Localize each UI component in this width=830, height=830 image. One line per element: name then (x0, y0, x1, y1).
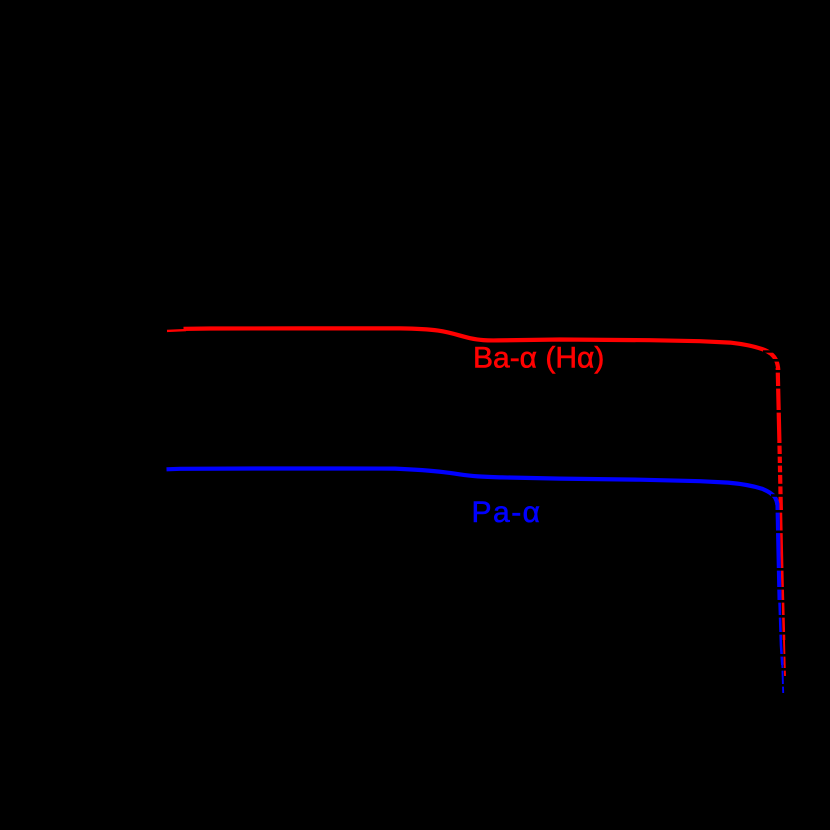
label Pa-α (472, 496, 542, 529)
svg-text:Pa-α: Pa-α (472, 496, 542, 529)
red curve Ba-alpha (Halpha) main body (184, 328, 779, 370)
label Ba-α (Hα) (473, 342, 604, 375)
red curve steep drop (778, 368, 785, 676)
black tick gaps over drops (763, 350, 790, 686)
blue curve steep drop (777, 503, 783, 693)
blue curve Pa-alpha main body (167, 469, 778, 506)
red curve left tip (167, 329, 186, 332)
svg-text:Ba-α (Hα): Ba-α (Hα) (473, 342, 604, 375)
